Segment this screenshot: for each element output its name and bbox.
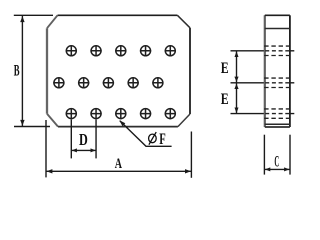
leader line to phi F [120, 121, 172, 147]
plate bottom-right chamfer [178, 114, 190, 127]
hidden centerline row 2 [265, 82, 289, 84]
D left extension line [70, 120, 72, 159]
arrow E lower bottom [235, 108, 239, 114]
D right extension line [95, 120, 97, 159]
arrow A left [46, 169, 52, 173]
svg-text:B: B [14, 63, 20, 80]
hole H14 [141, 109, 151, 119]
C left extension line [263, 135, 265, 175]
plate bottom edge [58, 126, 178, 128]
side view lower chamfer line [265, 123, 290, 125]
side view right edge [289, 15, 291, 127]
side view upper chamfer line [265, 28, 290, 30]
side view left edge [264, 15, 266, 127]
hole H8 [103, 78, 113, 88]
E extension line row 2 (solid stubs) [231, 82, 295, 84]
arrow B bottom [20, 120, 24, 126]
arrow C right [284, 167, 289, 171]
hole H12 [91, 109, 101, 119]
plate bottom-left chamfer [47, 114, 58, 127]
hidden hole edge line row 1 upper [264, 45, 290, 47]
hole H2 [91, 46, 101, 56]
arrow E upper bottom [234, 77, 238, 82]
arrow B top [20, 16, 24, 22]
hole H15 [165, 109, 175, 119]
hole H3 [116, 46, 126, 56]
hidden centerline row 1 [265, 50, 289, 52]
hole H11 [66, 109, 76, 119]
E extension line row 1 (solid stubs) [231, 50, 295, 52]
arrow E lower top [234, 84, 238, 89]
hole H6 [54, 78, 64, 88]
arrow D left [72, 148, 77, 152]
C right extension line [289, 135, 291, 175]
A right extension line [190, 132, 192, 178]
phi symbol loop [149, 134, 157, 143]
leader arrowhead at hole [119, 120, 125, 126]
plate top-left chamfer [47, 15, 58, 28]
hole H9 [128, 78, 138, 88]
arrow D right [91, 148, 96, 152]
svg-text:A: A [115, 156, 123, 172]
svg-text:E: E [221, 60, 229, 77]
arrow E upper top [235, 51, 239, 57]
phi symbol slash [149, 132, 156, 145]
hidden hole edge line row 2 lower [264, 87, 290, 89]
dimension line E [236, 51, 238, 113]
dimension line C [265, 168, 290, 170]
B bottom extension line [14, 126, 50, 128]
plate top edge [58, 14, 178, 16]
E extension line row 3 (solid stubs) [231, 113, 295, 115]
dimension line B [21, 16, 23, 126]
A left extension line [45, 120, 47, 177]
hole H13 [116, 109, 126, 119]
hidden centerline row 3 [265, 113, 289, 115]
plate right edge [189, 28, 191, 114]
dimension line D [72, 149, 96, 151]
plate top-right chamfer [177, 15, 190, 27]
hole H5 [165, 46, 175, 56]
B top extension line [14, 14, 53, 16]
hidden hole edge line row 2 upper [264, 77, 290, 79]
hole H7 [79, 78, 89, 88]
hole H10 [153, 78, 163, 88]
hole H4 [141, 46, 151, 56]
side view bottom edge [265, 126, 290, 128]
dimension line A [46, 170, 191, 172]
arrow C left [265, 167, 270, 171]
hidden hole edge line row 3 lower [264, 117, 290, 119]
holes row 1 (5 holes) [66, 45, 176, 56]
holes row 2 (5 holes, staggered) [53, 77, 163, 88]
hole H1 [66, 46, 76, 56]
side view top edge [265, 14, 290, 16]
svg-text:E: E [221, 91, 229, 108]
svg-text:F: F [159, 131, 166, 148]
hidden hole edge line row 3 upper [264, 108, 290, 110]
svg-text:C: C [274, 153, 279, 170]
holes row 3 (5 holes) [66, 108, 176, 119]
hidden hole edge line row 1 lower [264, 55, 290, 57]
svg-text:D: D [79, 130, 88, 149]
plate left edge [46, 28, 48, 114]
arrow A right [185, 169, 191, 173]
